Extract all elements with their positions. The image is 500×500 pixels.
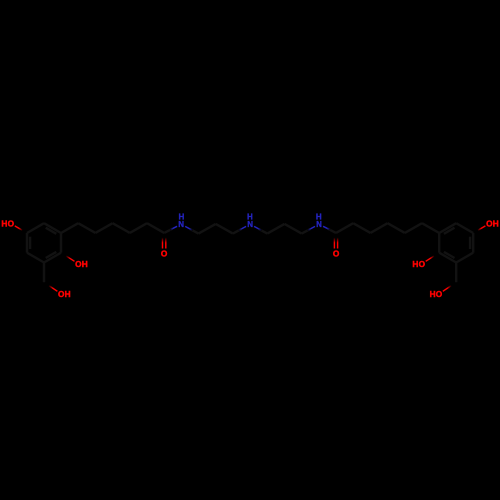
label H on right amide N — [316, 212, 322, 221]
left C=O double bond line 1 — [162, 238, 164, 249]
svg-text:H: H — [316, 212, 322, 221]
right benzene ring bond C4-C5 — [472, 233, 474, 253]
right benzene ring bond C2-C3 — [439, 253, 456, 263]
svg-text:N: N — [316, 220, 322, 229]
left benzene ring double bond C6-C1 — [46, 228, 57, 234]
left chain bond 5 — [130, 223, 147, 233]
left benzene ring bond C2-C3 — [44, 253, 61, 263]
right CH2-ring bond — [455, 263, 457, 283]
label O of right amide carbonyl — [333, 249, 340, 259]
left benzene ring double bond C4-C5 — [29, 237, 31, 249]
label H of left bottom OH — [65, 289, 71, 299]
label O of right top OH — [486, 219, 493, 229]
right N-CH2 bond (C half) — [302, 229, 311, 234]
hydroxymethyl O-C bond (right) — [443, 286, 452, 292]
label H of right top OH — [493, 219, 499, 229]
left chain bond 6 — [147, 223, 164, 233]
right chain bond 6 — [336, 223, 353, 233]
left chain bond 2 — [78, 223, 95, 233]
left amide N-CH2 bond — [185, 226, 192, 230]
right C=O double bond line 1 — [333, 238, 335, 249]
label H of left mid OH — [82, 259, 88, 269]
right propyl bond CH2-CH2 a — [285, 224, 302, 234]
label N of central amine — [247, 220, 253, 229]
right C=O double bond line 2 — [337, 238, 339, 249]
right benzene ring double bond C2-C3 — [444, 252, 455, 258]
left N-CH2 bond (C half) — [190, 229, 199, 234]
svg-text:H: H — [412, 259, 418, 269]
svg-text:O: O — [436, 289, 443, 299]
left propyl bond CH2-CH2 b — [216, 224, 233, 234]
right amide N-CH2 bond — [308, 226, 315, 230]
right amide C-N bond (C half) — [328, 229, 337, 233]
central N-CH2 bond (left) — [239, 226, 246, 230]
left benzene ring double bond C2-C3 — [46, 252, 57, 258]
label O of right bottom HO — [436, 289, 443, 299]
hydroxyl O-C bond (left top HO) — [15, 226, 23, 231]
left amide C-N bond (C half) — [164, 229, 173, 233]
svg-text:H: H — [179, 212, 185, 221]
label O of left HO — [8, 219, 15, 229]
svg-text:O: O — [333, 249, 340, 259]
svg-text:N: N — [247, 220, 253, 229]
label H of left HO — [1, 219, 7, 229]
label O of right mid HO — [419, 259, 426, 269]
svg-text:H: H — [247, 212, 253, 221]
svg-text:N: N — [178, 220, 184, 229]
label N of right amide — [316, 220, 322, 229]
label O of left amide carbonyl — [161, 249, 168, 259]
left chain bond 4 — [113, 223, 130, 233]
left benzene ring bond C5-C6 — [27, 223, 44, 233]
central N-CH2 bond (right) — [254, 226, 261, 230]
label O of left mid OH — [75, 259, 82, 269]
right chain bond 3 — [388, 223, 405, 233]
hydroxyl O-C bond (left mid OH) — [66, 256, 75, 261]
label H on central N — [247, 212, 253, 221]
right chain bond 5 — [353, 223, 370, 233]
left propyl bond CH2-CH2 a — [199, 224, 216, 234]
left C=O double bond line 2 — [165, 238, 167, 249]
left amide N-C(=O) bond — [170, 226, 177, 230]
hydroxyl O-C bond (right top OH) — [478, 226, 486, 231]
right benzene ring double bond C4-C5 — [469, 237, 471, 249]
right benzene ring bond C1-C2 — [438, 233, 440, 253]
left chain bond 1 — [61, 223, 78, 233]
right benzene ring bond C5-C6 — [456, 223, 473, 233]
label H of right mid HO — [412, 259, 418, 269]
svg-text:H: H — [82, 259, 88, 269]
right chain bond 1 — [422, 223, 439, 233]
central N right bond (C half) — [259, 229, 268, 234]
left chain bond 3 — [95, 223, 112, 233]
hydroxyl O-C bond (right mid HO) — [426, 256, 435, 261]
svg-text:O: O — [161, 249, 168, 259]
label H on left amide N — [179, 212, 185, 221]
right chain bond 2 — [405, 223, 422, 233]
svg-text:H: H — [65, 289, 71, 299]
left benzene ring bond C1-C2 — [60, 233, 62, 253]
label N of left amide — [178, 220, 184, 229]
left benzene ring bond C3-C4 — [27, 253, 44, 263]
central N left bond (C half) — [233, 229, 242, 234]
svg-text:H: H — [493, 219, 499, 229]
left benzene ring bond C6-C1 — [44, 223, 61, 233]
left CH2-ring bond — [43, 263, 45, 283]
right chain bond 4 — [370, 223, 387, 233]
svg-text:H: H — [430, 289, 436, 299]
svg-text:O: O — [8, 219, 15, 229]
hydroxymethyl O-C bond (left) — [49, 286, 58, 292]
left benzene ring bond C4-C5 — [26, 233, 28, 253]
label H of right bottom HO — [430, 289, 436, 299]
right benzene ring double bond C6-C1 — [444, 228, 455, 234]
right benzene ring bond C6-C1 — [439, 223, 456, 233]
right propyl bond CH2-CH2 b — [267, 224, 284, 234]
right benzene ring bond C3-C4 — [456, 253, 473, 263]
label O of left bottom OH — [58, 289, 65, 299]
right amide N-C(=O) bond — [323, 226, 330, 230]
svg-text:H: H — [1, 219, 7, 229]
svg-text:O: O — [419, 259, 426, 269]
